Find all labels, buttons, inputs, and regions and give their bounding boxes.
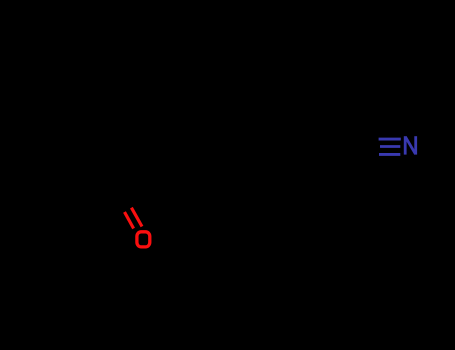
nitrile black half (carbon side) xyxy=(372,139,380,154)
oxygen atom O xyxy=(137,232,150,247)
benzene ring xyxy=(196,102,330,220)
wire: bond benzene C4 to nitrile C xyxy=(330,147,372,161)
nitrile triple bond C#N (nitrogen half, blue) xyxy=(379,139,401,154)
wire: bond cyclopropane C to carbonyl C xyxy=(78,171,124,201)
nitrogen atom N xyxy=(405,136,416,154)
carbonyl C=O black half (carbon side) xyxy=(120,200,131,212)
cyclopropane ring xyxy=(26,143,78,198)
wire: bond CH2 to benzene ring C1 xyxy=(160,146,196,161)
wire: bond carbonyl C to CH2 xyxy=(124,146,160,201)
carbonyl double bond C=O (oxygen half, red) xyxy=(125,208,143,229)
